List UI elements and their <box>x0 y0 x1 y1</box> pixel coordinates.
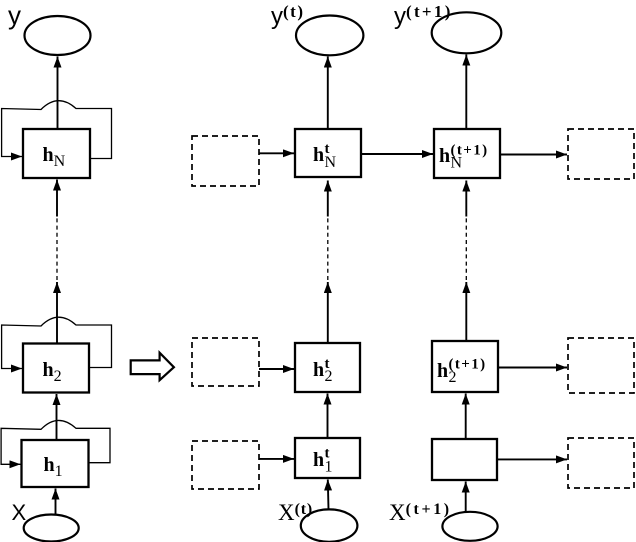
loop hN <box>2 101 112 159</box>
dashed box next h1 <box>568 438 634 488</box>
wire h2t1 to next <box>498 367 567 369</box>
box h2t1 <box>432 341 498 392</box>
wire prev to h1t <box>259 458 294 460</box>
wire dots to hN <box>56 180 58 217</box>
svg-text:X: X <box>12 500 27 525</box>
wire h1t1 to next <box>497 458 567 460</box>
wire dots to hNt <box>327 181 329 217</box>
wire dots to hNt1 <box>465 181 467 217</box>
wire Xt1 to h1t1 <box>465 482 467 513</box>
dashed box prev h2 <box>192 338 259 386</box>
dashed box next h2 <box>568 338 634 393</box>
wire prev to h2t <box>259 368 294 370</box>
loop h1 <box>1 420 110 464</box>
big unfold arrow <box>131 353 174 381</box>
wire hNt1 to next <box>500 154 567 156</box>
ellipse X(t+1) <box>442 512 497 541</box>
wire h2 to dots <box>56 282 58 344</box>
svg-text:h: h <box>437 360 448 382</box>
svg-text:1: 1 <box>325 459 333 476</box>
svg-text:h: h <box>313 449 324 471</box>
svg-text:h: h <box>313 359 324 381</box>
wire hNt1 to yt1 <box>465 55 467 130</box>
dashed box next hN <box>568 129 634 179</box>
box h2 <box>23 344 89 393</box>
box h1 <box>22 440 89 487</box>
dashed box prev hN <box>192 136 259 186</box>
ellipse y(t) <box>296 16 363 56</box>
dashed box prev h1 <box>192 441 259 489</box>
box hNt <box>295 129 361 177</box>
loop h2 <box>2 317 112 368</box>
wire hN to y <box>57 57 59 130</box>
ellipse X(t) <box>301 509 358 541</box>
wire h1t1 to h2t1 <box>465 394 467 440</box>
dashed wire t column <box>327 217 329 280</box>
wire h1 to h2 <box>56 394 58 440</box>
box h1t <box>295 438 360 478</box>
ellipse y <box>25 16 91 55</box>
svg-text:2: 2 <box>325 368 333 385</box>
wire h1t to h2t <box>327 394 329 439</box>
svg-text:N: N <box>325 154 337 171</box>
svg-text:y: y <box>8 0 21 30</box>
ellipse X <box>24 515 79 542</box>
dashed wire left column <box>56 217 58 280</box>
wire hNt to yt <box>327 57 329 130</box>
wire hNt to hNt1 <box>361 153 433 155</box>
box hN <box>23 129 90 178</box>
box h2t <box>295 343 360 392</box>
box hNt1 <box>434 129 500 178</box>
svg-text:2: 2 <box>449 369 457 386</box>
wire X to h1 <box>55 489 57 515</box>
svg-text:N: N <box>451 155 463 172</box>
ellipse y(t+1) <box>432 12 502 53</box>
wire h2t1 to dots <box>465 282 467 341</box>
wire prev to hNt <box>259 152 294 154</box>
wire Xt to h1t <box>327 480 330 510</box>
box h1t1 <box>432 439 497 480</box>
dashed wire t1 column <box>465 217 467 280</box>
svg-text:h: h <box>439 145 450 167</box>
svg-text:h: h <box>313 144 324 166</box>
wire h2t to dots <box>327 282 329 343</box>
